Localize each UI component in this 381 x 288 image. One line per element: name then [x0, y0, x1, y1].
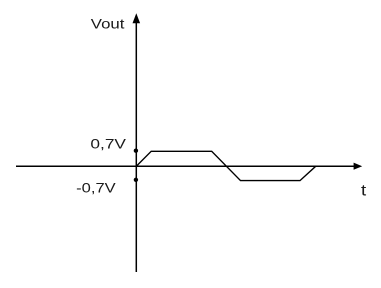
y-axis (Vout axis)	[135, 21, 137, 272]
x-axis (t axis)	[16, 165, 357, 167]
svg-text:t: t	[361, 182, 367, 199]
svg-text:Vout: Vout	[91, 16, 125, 31]
node marker at -0,7V	[134, 178, 138, 182]
svg-text:-0,7V: -0,7V	[76, 180, 116, 195]
node marker at +0,7V	[134, 149, 138, 153]
y-axis arrowhead	[133, 13, 141, 23]
waveform: clipped sine (trapezoid)	[136, 151, 315, 180]
x-axis arrowhead	[354, 163, 363, 170]
svg-text:0,7V: 0,7V	[90, 137, 126, 152]
